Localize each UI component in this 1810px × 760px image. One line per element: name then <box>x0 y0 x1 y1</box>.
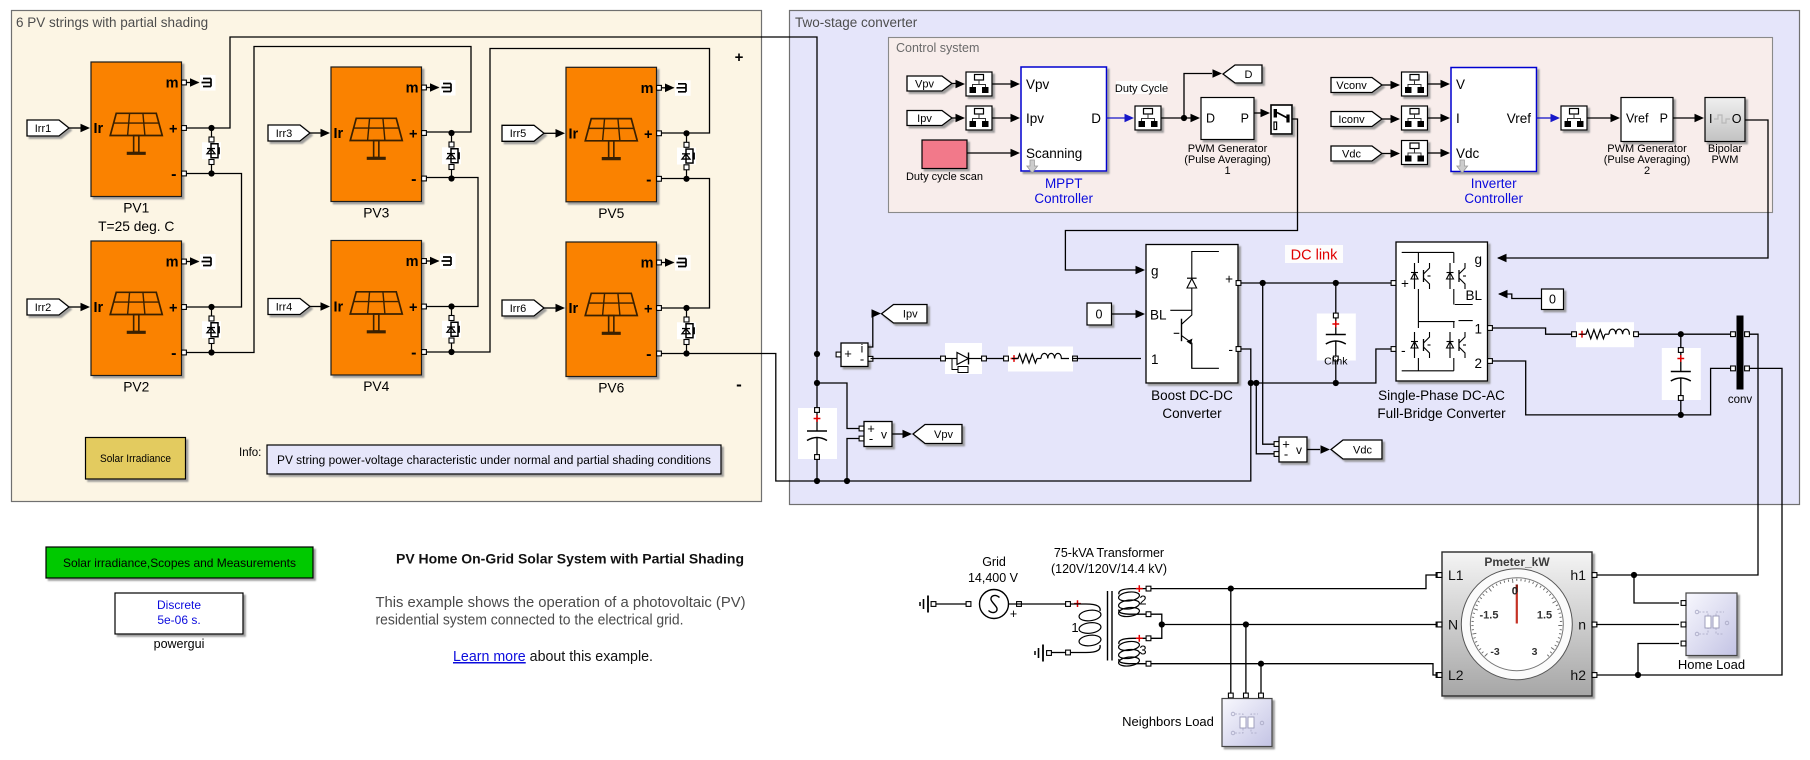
constant block 0 (boost BL) <box>1087 303 1112 325</box>
svg-text:P: P <box>1660 112 1668 126</box>
svg-text:m: m <box>406 81 419 97</box>
svg-text:Boost DC-DC: Boost DC-DC <box>1151 388 1233 403</box>
junction: PV1 + node <box>208 125 214 131</box>
wire: PV3 - to PV4 + <box>427 178 478 307</box>
voltage measurement Vdc <box>1279 437 1307 462</box>
rate transition RT5 <box>1402 106 1428 130</box>
rate transition RT1 <box>966 72 992 96</box>
svg-text:75-kVA Transformer: 75-kVA Transformer <box>1054 546 1164 560</box>
junction: +rail to Clink <box>1333 280 1339 286</box>
wire: Neighbors Load drop L1 <box>1230 589 1232 694</box>
svg-text:Vdc: Vdc <box>1456 146 1480 161</box>
svg-text:D: D <box>1245 69 1253 81</box>
svg-text:Ir: Ir <box>569 126 579 142</box>
bypass diode for PV5 <box>686 133 688 179</box>
wire: PWM Generator 1 P to manual switch <box>1254 112 1261 114</box>
area box: Two-stage converter <box>790 11 1800 505</box>
input tag Vconv (From) <box>1331 78 1382 93</box>
svg-text:Home Load: Home Load <box>1678 657 1745 672</box>
wire: Pmeter n to Home Load input 2 <box>1596 624 1679 626</box>
wire: winding 1 to ground <box>1066 650 1071 655</box>
svg-text:+: + <box>1401 276 1409 291</box>
svg-text:3: 3 <box>1139 643 1146 658</box>
svg-text:-: - <box>646 171 651 188</box>
label: Duty Cycle <box>1116 81 1167 94</box>
wire: conv bus to Pmeter h2 <box>1596 368 1782 675</box>
PV array block PV5 <box>566 67 657 202</box>
wire: Irr4 to PV4 Ir <box>310 306 321 308</box>
svg-text:-: - <box>736 375 742 394</box>
svg-text:Controller: Controller <box>1034 191 1093 206</box>
svg-text:+: + <box>169 122 177 138</box>
junction: +rail to Vdc sensor <box>1260 280 1266 286</box>
wire: PV1 + to DC bus top rail <box>186 37 817 354</box>
svg-text:PWM: PWM <box>1712 154 1739 166</box>
svg-text:-: - <box>411 171 416 188</box>
junction: PV5 - node <box>683 176 689 182</box>
svg-text:2: 2 <box>1474 356 1482 371</box>
transformer secondary winding 3 <box>1119 638 1146 644</box>
bypass diode for PV3 <box>451 133 453 179</box>
wire: PV5 m to terminator <box>661 87 674 89</box>
svg-text:Iconv: Iconv <box>1338 114 1365 126</box>
wire: Vconv tag to RT4 <box>1382 84 1391 86</box>
svg-text:+: + <box>1010 607 1017 621</box>
junction: h1 to Home Load <box>1631 572 1637 578</box>
wire: DC-AC 1 to output inductor <box>1493 328 1573 334</box>
ground: grid source <box>927 596 929 613</box>
svg-text:0: 0 <box>1096 308 1103 322</box>
goto tag Ipv <box>882 305 928 324</box>
svg-text:-: - <box>646 346 651 363</box>
svg-text:Ir: Ir <box>334 300 344 316</box>
svg-text:L1: L1 <box>1448 567 1464 583</box>
svg-text:3: 3 <box>1532 646 1538 658</box>
svg-text:Vpv: Vpv <box>915 78 934 90</box>
block: Bipolar PWM <box>1705 98 1745 142</box>
wire: PV1 - to PV2 + <box>186 174 242 308</box>
svg-text:DC link: DC link <box>1291 248 1338 264</box>
svg-text:PV5: PV5 <box>598 206 624 221</box>
wire: Iconv tag to RT5 <box>1382 118 1391 120</box>
rate transition RT4 <box>1402 72 1428 96</box>
svg-text:+: + <box>1225 272 1233 287</box>
input tag Vpv (From) <box>907 76 952 91</box>
wire: RT6 to Inverter Vdc <box>1428 152 1442 154</box>
wire: Clink branch <box>1335 283 1337 383</box>
junction: PV2 - node <box>208 349 214 355</box>
terminator for PV5 m <box>675 80 691 96</box>
powergui block <box>115 593 243 634</box>
wire: PV5 - to PV6 + <box>661 179 710 309</box>
input tag Ipv (From) <box>907 111 952 126</box>
junction: bottom rail at capacitor <box>814 478 820 484</box>
svg-text:Clink: Clink <box>1324 356 1348 368</box>
svg-text:+: + <box>409 300 417 316</box>
junction: -rail at Clink <box>1333 380 1339 386</box>
svg-text:PV2: PV2 <box>123 380 149 395</box>
svg-text:D: D <box>1091 111 1101 126</box>
annotation: PV string info box <box>267 445 721 474</box>
svg-text:Ipv: Ipv <box>903 309 918 321</box>
svg-text:-1.5: -1.5 <box>1480 610 1499 622</box>
transformer core <box>1107 591 1109 661</box>
goto tag D <box>1223 65 1262 83</box>
subsystem: Neighbors Load <box>1222 699 1272 747</box>
input tag Irr2 <box>27 299 69 315</box>
wire: RT2 to MPPT Ipv <box>992 117 1011 119</box>
svg-text:-: - <box>171 166 176 183</box>
svg-text:-: - <box>1284 447 1288 462</box>
svg-text:Ir: Ir <box>569 301 579 317</box>
svg-text:Grid: Grid <box>982 555 1006 569</box>
input tag Irr3 <box>268 125 310 141</box>
output filter capacitor <box>1662 348 1701 400</box>
label: DC link <box>1285 245 1343 263</box>
svg-text:O: O <box>1732 112 1742 126</box>
svg-text:I: I <box>1709 112 1712 126</box>
junction: -rail to Vdc sensor - <box>1253 380 1259 386</box>
terminator for PV3 m <box>440 80 456 96</box>
wire: Duty cycle scan to MPPT Scanning <box>967 152 1011 154</box>
wire: RT5 to Inverter I <box>1428 117 1442 119</box>
svg-text:residential system connected t: residential system connected to the elec… <box>376 612 684 629</box>
series diode D1 <box>945 343 982 374</box>
svg-text:1: 1 <box>1151 352 1159 367</box>
svg-text:m: m <box>406 254 419 270</box>
wire: output inductor to conv bus <box>1638 333 1730 335</box>
svg-text:1: 1 <box>1474 322 1482 337</box>
wire: PV2 m to terminator <box>186 261 199 263</box>
rate transition RT7 <box>1561 106 1587 130</box>
svg-text:Pmeter_kW: Pmeter_kW <box>1484 555 1550 569</box>
PV array block PV2 <box>91 241 182 376</box>
wire: RT3 to PWM Generator 1 D <box>1161 117 1191 119</box>
svg-text:Neighbors Load: Neighbors Load <box>1122 714 1214 729</box>
wire: PV3 m to terminator <box>426 87 439 89</box>
wire: PV4 m to terminator <box>426 260 439 262</box>
junction: L2 to Neighbors Load <box>1258 661 1264 667</box>
junction: h2 to Home Load <box>1635 672 1641 678</box>
wire: Vpv tag to rate transition <box>952 83 956 85</box>
svg-text:6 PV strings with partial shad: 6 PV strings with partial shading <box>16 15 208 30</box>
wire: branch to Vpv sensor + <box>817 383 861 429</box>
boost inductor RL1 <box>1008 347 1073 372</box>
svg-text:Ipv: Ipv <box>917 113 932 125</box>
svg-text:-: - <box>171 345 176 362</box>
wire: PWM Generator 2 P to Bipolar PWM <box>1673 117 1695 119</box>
svg-text:Ir: Ir <box>94 300 104 316</box>
block: manual switch <box>1271 105 1292 134</box>
svg-text:0: 0 <box>1549 293 1556 307</box>
wire: PV+ node down to input capacitor and bottom rail <box>816 354 818 481</box>
AC voltage source: Grid 14,400 V <box>980 590 1009 619</box>
svg-text:Irr2: Irr2 <box>35 302 52 314</box>
svg-text:PV1: PV1 <box>123 201 149 216</box>
svg-text:Discrete: Discrete <box>157 598 201 612</box>
gauge dial of Pmeter_kW <box>1461 569 1572 680</box>
svg-text:This example shows the operati: This example shows the operation of a ph… <box>376 594 746 611</box>
svg-text:n: n <box>1578 617 1586 633</box>
svg-text:P: P <box>1241 112 1249 126</box>
svg-text:Control system: Control system <box>896 41 979 55</box>
terminator for PV2 m <box>200 254 216 270</box>
wire: Irr6 to PV6 Ir <box>544 307 556 309</box>
svg-text:Ir: Ir <box>94 121 104 137</box>
svg-text:Duty Cycle: Duty Cycle <box>1115 83 1168 95</box>
wire: Vpv sensor - to bottom rail <box>847 439 861 482</box>
junction: PV5 + node <box>683 130 689 136</box>
subsystem: MPPT Controller <box>1021 67 1107 171</box>
PV array block PV1 <box>91 62 182 197</box>
wire: Neighbors Load drop L2 <box>1260 664 1262 694</box>
junction: output cap top <box>1678 331 1684 337</box>
wire: AC source to transformer winding 1 <box>1017 602 1022 607</box>
svg-text:V: V <box>1456 77 1465 92</box>
svg-text:Duty cycle scan: Duty cycle scan <box>906 171 983 183</box>
junction: L1 to Neighbors Load <box>1228 586 1234 592</box>
svg-text:1: 1 <box>1071 620 1078 635</box>
svg-text:1.5: 1.5 <box>1537 610 1552 622</box>
wire: PV4 - to PV5 + <box>427 49 710 353</box>
svg-text:I: I <box>1456 111 1460 126</box>
goto tag Vpv <box>913 425 962 444</box>
wire: DC link + rail <box>1241 282 1396 284</box>
svg-text:m: m <box>166 255 179 271</box>
junction: duty cycle node <box>1181 115 1187 121</box>
svg-text:(120V/120V/14.4 kV): (120V/120V/14.4 kV) <box>1051 562 1167 576</box>
input tag Irr1 <box>27 120 69 136</box>
wire: duty cycle node to D goto tag <box>1184 74 1212 119</box>
svg-text:D: D <box>1206 112 1215 126</box>
subsystem: Single-Phase DC-AC Full-Bridge Converter <box>1396 242 1488 381</box>
svg-text:g: g <box>1474 252 1482 267</box>
svg-text:Scanning: Scanning <box>1026 146 1082 161</box>
junction: N to Neighbors Load <box>1243 621 1249 627</box>
wire: Vdc sensor output to Vdc goto tag <box>1307 449 1320 451</box>
junction: PV3 + node <box>448 130 454 136</box>
wire: Irr1 to PV1 Ir <box>69 127 81 129</box>
junction: output cap bottom <box>1678 412 1684 418</box>
wire: -rail to Vdc sensor - <box>1256 383 1276 454</box>
svg-text:Inverter: Inverter <box>1471 176 1517 191</box>
link block: Solar irradiance,Scopes and Measurements <box>46 547 313 578</box>
svg-text:Full-Bridge Converter: Full-Bridge Converter <box>1377 406 1506 421</box>
svg-text:BL: BL <box>1150 308 1167 323</box>
wire: MPPT D to RT3 (blue) <box>1107 117 1128 119</box>
svg-text:+: + <box>844 346 852 361</box>
svg-text:Info:: Info: <box>239 447 261 459</box>
terminator for PV6 m <box>675 255 691 271</box>
wire: DC link - rail <box>1241 349 1396 383</box>
wire: winding 2 to Pmeter L1 <box>1151 575 1437 589</box>
wire: PV2 - to PV3 + <box>186 47 471 353</box>
svg-text:+: + <box>169 301 177 317</box>
wire: PV6 m to terminator <box>661 262 674 264</box>
wire: N node to Pmeter N <box>1162 624 1437 626</box>
bypass diode for PV6 <box>686 308 688 354</box>
svg-text:powergui: powergui <box>154 637 205 651</box>
wire: Ipv tag to rate transition <box>952 117 956 119</box>
svg-text:Vpv: Vpv <box>1026 77 1050 92</box>
svg-text:h1: h1 <box>1570 567 1586 583</box>
wire: 0 to Boost BL <box>1112 313 1137 315</box>
svg-text:conv: conv <box>1728 394 1753 406</box>
svg-text:-: - <box>1228 341 1233 357</box>
svg-text:Two-stage converter: Two-stage converter <box>795 15 918 30</box>
subsystem: Home Load <box>1686 593 1737 656</box>
wire: diode to boost inductor <box>986 358 1005 360</box>
svg-text:Vpv: Vpv <box>934 429 953 441</box>
bus bar conv <box>1737 316 1744 390</box>
transformer primary winding 1 <box>1070 604 1100 611</box>
input tag Vdc (From) <box>1331 146 1382 161</box>
DC link capacitor Clink <box>1317 314 1356 361</box>
wire: DC-AC 2 to conv bus bottom <box>1493 361 1731 415</box>
svg-text:Ipv: Ipv <box>1026 111 1044 126</box>
svg-text:v: v <box>881 428 887 442</box>
current measurement Ipv <box>841 343 868 367</box>
wire: output cap branch <box>1680 334 1682 415</box>
wire: RT7 to PWM Generator 2 Vref <box>1587 117 1611 119</box>
wire: inductor to Boost input 1 <box>1072 358 1141 360</box>
rate transition RT6 <box>1402 141 1428 165</box>
junction: PV3 - node <box>448 175 454 181</box>
svg-text:+: + <box>644 127 652 143</box>
svg-text:+: + <box>644 302 652 318</box>
junction: PV4 + node <box>448 303 454 309</box>
terminator for PV1 m <box>200 75 216 91</box>
svg-text:0: 0 <box>1512 586 1518 598</box>
svg-text:14,400 V: 14,400 V <box>968 571 1019 585</box>
area box: 6 PV strings with partial shading <box>12 11 762 502</box>
wire: Inverter Vref to RT7 (blue) <box>1537 117 1553 119</box>
svg-text:Irr3: Irr3 <box>276 128 293 140</box>
svg-text:-3: -3 <box>1490 646 1499 658</box>
wire: Neighbors Load drop N <box>1245 625 1247 695</box>
svg-text:MPPT: MPPT <box>1045 176 1083 191</box>
junction: PV6 + node <box>683 305 689 311</box>
wire: Bipolar PWM O to DC-AC g <box>1498 120 1768 258</box>
svg-text:Irr5: Irr5 <box>510 128 527 140</box>
wire: 0 to DC-AC BL <box>1499 294 1542 299</box>
input capacitor Cpv <box>798 408 837 459</box>
svg-text:+: + <box>735 49 744 66</box>
svg-text:2: 2 <box>1139 593 1146 608</box>
svg-text:m: m <box>166 76 179 92</box>
wire: Irr2 to PV2 Ir <box>69 306 81 308</box>
bypass diode for PV2 <box>211 307 213 353</box>
svg-text:Converter: Converter <box>1162 406 1222 421</box>
svg-text:Irr4: Irr4 <box>276 301 293 313</box>
output inductor RL2 <box>1576 322 1634 347</box>
wire: ground to AC source <box>936 603 966 605</box>
wire: winding 3 to Pmeter L2 <box>1151 664 1437 675</box>
subsystem block: Pmeter_kW power meter <box>1442 552 1592 696</box>
bypass diode for PV4 <box>451 307 453 353</box>
input tag Iconv (From) <box>1331 112 1382 127</box>
junction: PV+ node to Vpv sensor branch <box>814 380 820 386</box>
PV array block PV6 <box>566 242 657 377</box>
svg-text:Vdc: Vdc <box>1342 148 1361 160</box>
voltage measurement Vpv <box>864 422 892 447</box>
input tag Irr6 <box>502 300 544 316</box>
junction: PV6 - node <box>683 350 689 356</box>
svg-text:Vref: Vref <box>1626 112 1649 126</box>
wire: +rail to Vdc sensor + <box>1263 283 1276 444</box>
wire: Irr5 to PV5 Ir <box>544 132 556 134</box>
wire: h1 to Home Load input 1 <box>1634 575 1679 603</box>
svg-text:T=25 deg. C: T=25 deg. C <box>98 219 174 234</box>
rate transition RT2 <box>966 106 992 130</box>
wire: Irr3 to PV3 Ir <box>310 132 321 134</box>
svg-text:PV3: PV3 <box>363 206 389 221</box>
svg-text:5e-06 s.: 5e-06 s. <box>157 613 200 627</box>
wire: Vpv sensor output to Vpv goto tag <box>892 433 903 435</box>
PV array block PV3 <box>331 67 422 202</box>
junction: PV2 + node <box>208 304 214 310</box>
wire: Ipv sensor output up to Ipv goto tag <box>868 314 879 348</box>
junction: PV1 - node <box>208 170 214 176</box>
svg-text:Ir: Ir <box>334 126 344 142</box>
subsystem: Inverter Controller <box>1451 68 1537 172</box>
svg-text:Irr1: Irr1 <box>35 123 52 135</box>
wire: PV1 m to terminator <box>186 82 199 84</box>
PV array block PV4 <box>331 241 422 376</box>
svg-text:-: - <box>411 345 416 362</box>
subsystem: Boost DC-DC Converter <box>1146 245 1238 384</box>
wire: conv bus to Pmeter h1 <box>1596 334 1758 575</box>
wire: winding2 bottom / winding3 top to N node <box>1151 614 1162 638</box>
block: PWM Generator (Pulse Averaging) 2 <box>1621 98 1673 142</box>
svg-text:+: + <box>409 127 417 143</box>
svg-text:PV6: PV6 <box>598 381 624 396</box>
svg-text:PV string power-voltage charac: PV string power-voltage characteristic u… <box>277 453 711 467</box>
constant block 0 (inverter BL) <box>1542 289 1564 310</box>
svg-text:2: 2 <box>1644 165 1650 177</box>
area box: Control system <box>889 38 1773 213</box>
svg-text:Solar irradiance,Scopes and Me: Solar irradiance,Scopes and Measurements <box>63 556 296 570</box>
svg-text:PV4: PV4 <box>363 379 389 394</box>
input tag Irr5 <box>502 125 544 141</box>
svg-text:h2: h2 <box>1570 667 1586 683</box>
svg-text:Solar Irradiance: Solar Irradiance <box>100 453 171 465</box>
junction: N node <box>1159 621 1165 627</box>
svg-text:PV Home On-Grid Solar System w: PV Home On-Grid Solar System with Partia… <box>396 552 744 568</box>
block: Duty cycle scan <box>922 140 967 169</box>
ground: transformer primary <box>1042 645 1044 662</box>
block: PWM Generator (Pulse Averaging) 1 <box>1201 98 1254 140</box>
svg-text:1: 1 <box>1224 165 1230 177</box>
svg-text:L2: L2 <box>1448 667 1464 683</box>
svg-text:-: - <box>860 352 864 367</box>
wire: RT1 to MPPT Vpv <box>992 83 1011 85</box>
transformer secondary winding 2 <box>1119 589 1146 595</box>
input tag Irr4 <box>268 299 310 315</box>
wire: Vdc tag to RT6 <box>1382 153 1391 155</box>
junction: -rail at bottom rail <box>1248 380 1254 386</box>
svg-text:N: N <box>1448 617 1458 633</box>
svg-text:Single-Phase DC-AC: Single-Phase DC-AC <box>1378 388 1505 403</box>
subsystem: Solar Irradiance <box>86 438 186 480</box>
svg-text:Irr6: Irr6 <box>510 303 527 315</box>
goto tag Vdc <box>1331 440 1382 459</box>
svg-text:Vdc: Vdc <box>1353 444 1372 456</box>
rate transition RT3 <box>1135 106 1161 130</box>
svg-text:Vref: Vref <box>1507 111 1532 126</box>
svg-text:g: g <box>1151 264 1159 279</box>
svg-text:m: m <box>641 81 654 97</box>
